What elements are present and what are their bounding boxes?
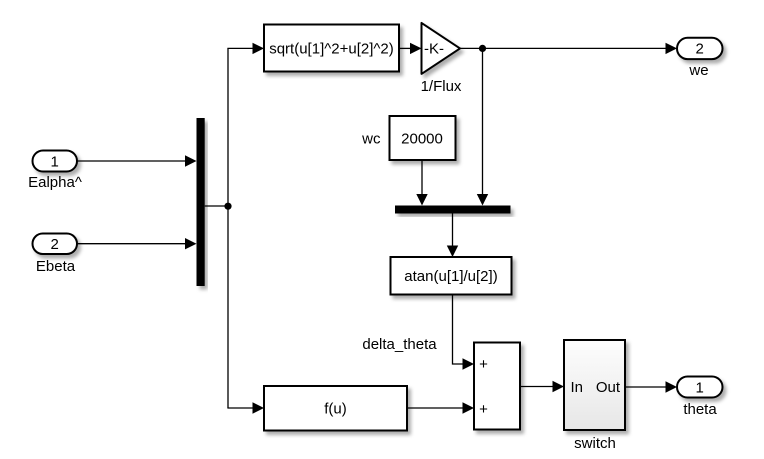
svg-text:switch: switch bbox=[574, 435, 616, 452]
wire f(u) to sum bbox=[407, 402, 474, 413]
wire trunk to sqrt block bbox=[227, 43, 264, 54]
svg-text:delta_theta: delta_theta bbox=[362, 336, 437, 353]
svg-text:theta: theta bbox=[683, 401, 717, 418]
outport 2 (we) bbox=[677, 38, 723, 79]
Fcn block sqrt(u[1]^2+u[2]^2) bbox=[264, 25, 399, 72]
wire atan to sum (delta_theta) bbox=[362, 295, 474, 370]
svg-text:1/Flux: 1/Flux bbox=[421, 78, 462, 95]
wire junction down to hmux bbox=[477, 48, 488, 205]
wire sum to switch bbox=[520, 381, 564, 392]
constant 20000 (wc) bbox=[361, 116, 455, 160]
svg-text:20000: 20000 bbox=[401, 130, 443, 147]
svg-text:f(u): f(u) bbox=[324, 401, 347, 418]
inport 1 (Ealpha^) bbox=[28, 151, 82, 192]
wire inport1 to mux bbox=[77, 155, 197, 166]
Fcn block atan(u[1]/u[2]) bbox=[391, 257, 512, 295]
mux2 (horizontal bar) bbox=[395, 206, 511, 214]
wire mux output stub bbox=[205, 205, 228, 207]
svg-text:Ebeta: Ebeta bbox=[36, 258, 76, 275]
switch subsystem block bbox=[564, 340, 625, 452]
svg-text:Out: Out bbox=[596, 379, 621, 396]
outport 1 (theta) bbox=[677, 377, 723, 419]
wire hmux to atan bbox=[447, 214, 458, 258]
svg-text:2: 2 bbox=[696, 41, 704, 58]
wire trunk vertical bbox=[227, 48, 229, 408]
svg-text:In: In bbox=[571, 379, 584, 396]
svg-text:Ealpha^: Ealpha^ bbox=[28, 174, 82, 191]
wire gain to outport we bbox=[460, 43, 677, 54]
svg-text:+: + bbox=[479, 356, 488, 373]
svg-text:+: + bbox=[479, 401, 488, 418]
gain 1/Flux (triangle -K-) bbox=[421, 23, 462, 95]
svg-text:wc: wc bbox=[361, 130, 381, 147]
junction node bbox=[224, 203, 231, 210]
wire switch to outport theta bbox=[625, 381, 677, 392]
svg-text:2: 2 bbox=[51, 236, 59, 253]
sum block bbox=[474, 343, 520, 430]
svg-text:-K-: -K- bbox=[424, 40, 444, 57]
mux (vertical bar) bbox=[197, 118, 205, 286]
svg-text:sqrt(u[1]^2+u[2]^2): sqrt(u[1]^2+u[2]^2) bbox=[269, 40, 394, 57]
wire constant to hmux bbox=[416, 160, 427, 206]
svg-text:atan(u[1]/u[2]): atan(u[1]/u[2]) bbox=[404, 268, 497, 285]
svg-text:1: 1 bbox=[696, 379, 704, 396]
junction node at gain output bbox=[479, 45, 486, 52]
wire inport2 to mux bbox=[77, 238, 197, 249]
Fcn block f(u) bbox=[264, 386, 407, 431]
inport 2 (Ebeta) bbox=[33, 234, 78, 276]
svg-text:we: we bbox=[688, 62, 708, 79]
wire trunk to f(u) block bbox=[227, 402, 264, 413]
svg-text:1: 1 bbox=[51, 153, 59, 170]
wire sqrt to gain bbox=[399, 43, 422, 54]
